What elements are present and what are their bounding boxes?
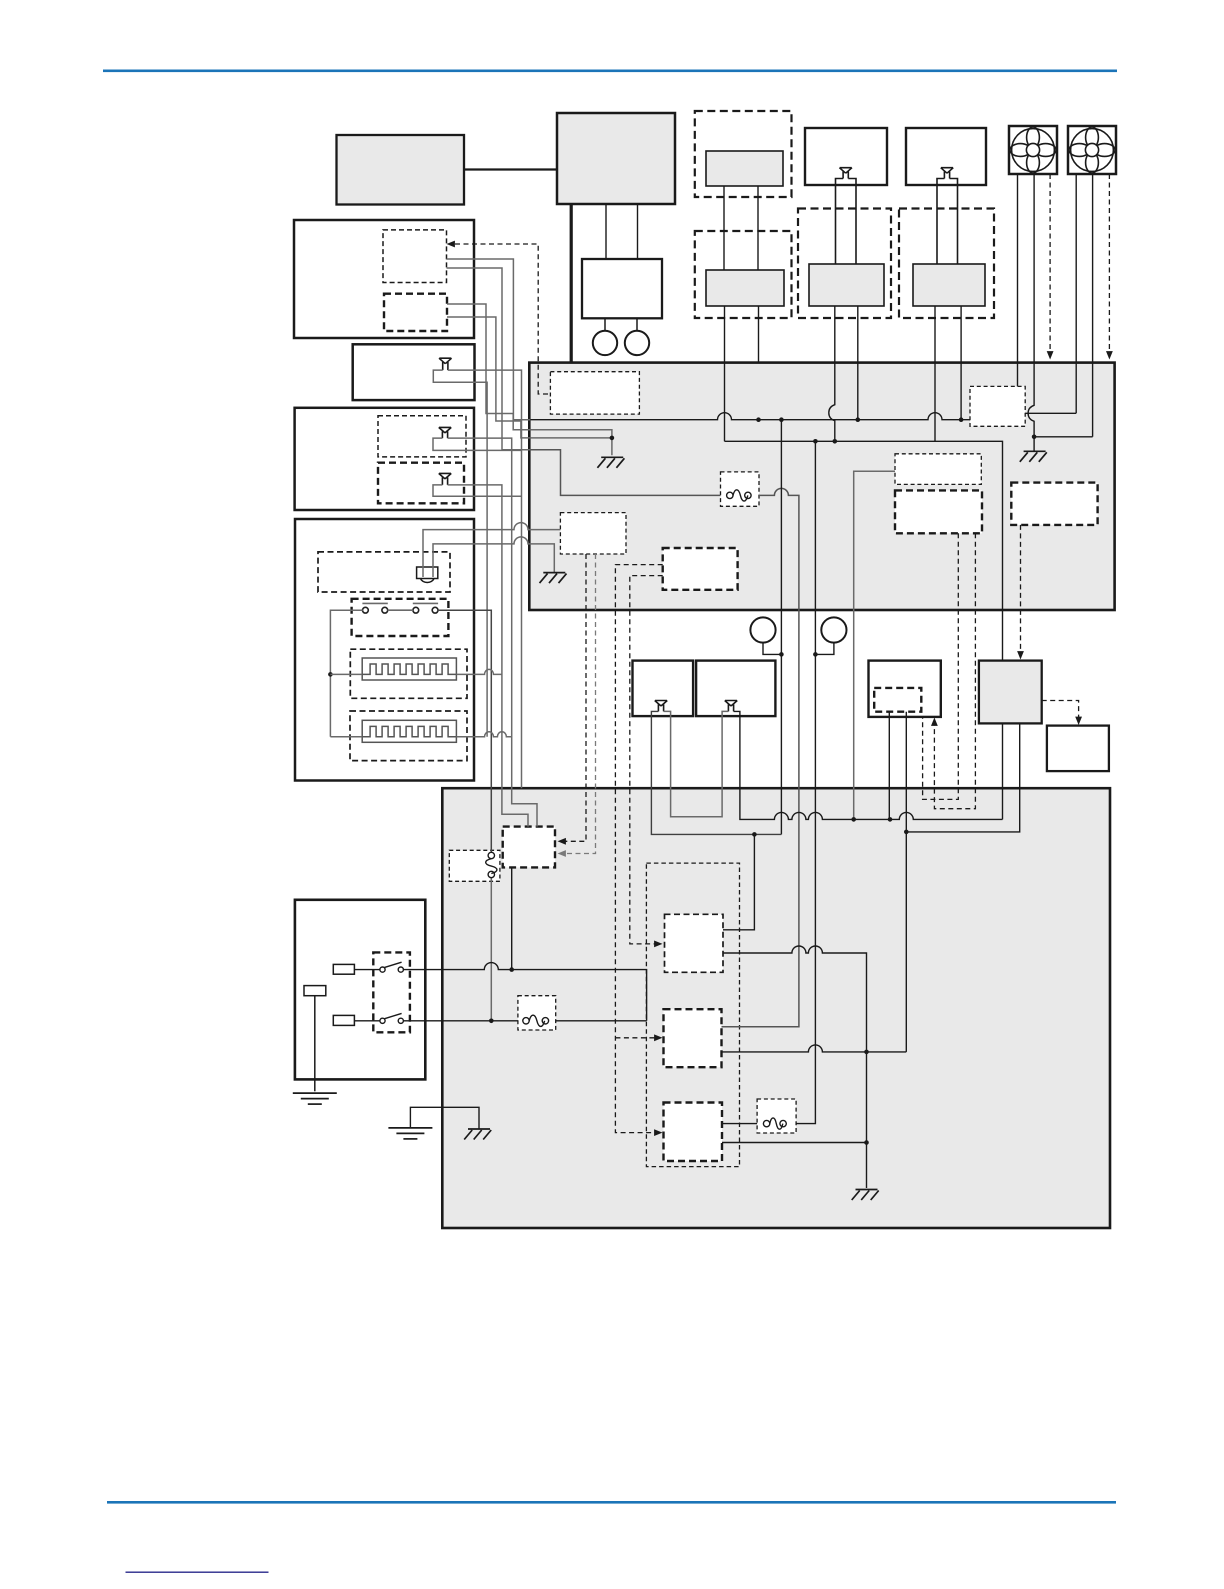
wire J pin2 — [433, 370, 487, 737]
lamp box J — [353, 344, 475, 400]
motor M2 stem — [636, 318, 638, 331]
junction CN2 — [813, 652, 818, 657]
link N to O (dashed with arrow) — [1042, 701, 1079, 720]
wire L4 right — [456, 732, 511, 737]
main control PWB (upper gray board) — [529, 363, 1114, 610]
thermostat symbol in K1 — [439, 427, 452, 438]
connector P3 on main PWB — [663, 548, 738, 590]
wire B trunk (thick) — [570, 204, 573, 363]
plug prong neutral — [333, 1015, 354, 1025]
frame ground link line — [410, 1107, 479, 1129]
harness F (dashed) — [798, 209, 891, 319]
thermostat symbol in J — [439, 358, 452, 370]
switch SW2 — [380, 1013, 404, 1023]
fuse symbol F1 — [727, 492, 733, 498]
connector P6 on main PWB — [895, 490, 982, 533]
fan FM1 — [1009, 126, 1057, 174]
wire Q1 bottom — [511, 867, 513, 969]
wire L3 left — [330, 673, 362, 675]
regulator R2 on power PWB — [664, 1009, 722, 1067]
connector M3a (thick dashed) — [874, 688, 921, 712]
controller box B (gray) — [557, 113, 675, 204]
interlock box N (gray) — [979, 661, 1042, 724]
sensor C connector (gray) — [706, 151, 783, 186]
harness D connector (gray) — [706, 270, 784, 306]
junction trace main / F2 — [856, 417, 861, 422]
wire H pin2 to main PWB — [960, 306, 962, 363]
fuse F1 box on main PWB — [721, 472, 760, 506]
power supply PWB (lower gray board) — [442, 788, 1110, 1228]
trace second to interlock N — [725, 441, 1003, 660]
FM1 sense line (dashed, arrow to main PWB) — [1049, 174, 1051, 352]
chassis ground (power PWB) — [852, 1190, 879, 1201]
sensor box M3 — [869, 661, 941, 717]
heater unit box K — [295, 408, 474, 510]
connector P4 on main PWB — [970, 386, 1025, 426]
thermostat K1 (dashed) — [378, 416, 466, 457]
thermostat box M1 — [633, 661, 694, 717]
wire L3 right — [456, 669, 502, 674]
link to R2 (dashed arrow) — [615, 1037, 657, 1039]
connector I1 (dashed) — [383, 230, 447, 283]
wire F pin2 — [857, 363, 859, 420]
plug prong earth — [304, 986, 326, 996]
riser wire CN2 to fuse F4 — [796, 441, 815, 1123]
regulator R1 on power PWB — [665, 914, 724, 972]
wire N pin1 down — [1002, 723, 1004, 819]
wire F pin1 (swerve hop) — [829, 363, 835, 442]
junction trace2 / F1wire — [833, 439, 838, 444]
sensor assembly C (dashed) — [695, 111, 792, 197]
fuse F4 box on power PWB — [757, 1099, 796, 1133]
regulator R3 on power PWB — [664, 1103, 723, 1162]
connector Q1 on power PWB — [503, 827, 555, 868]
FM2 sense line (dashed, arrow to main PWB) — [1108, 174, 1110, 352]
junction ground pair — [610, 436, 615, 441]
earth ground (inlet) — [293, 1093, 337, 1104]
thermostat symbol in E — [839, 168, 852, 179]
wire I1 pin2 — [447, 268, 531, 450]
wire B to motor driver 2 — [637, 204, 639, 259]
footer rule — [107, 1501, 1116, 1504]
chassis ground (fan) — [1020, 451, 1047, 462]
motor driver box — [582, 259, 662, 318]
wire B to motor driver 1 — [605, 204, 607, 259]
thermoswitch L2 (thick dashed) — [352, 599, 449, 636]
riser wire CN1 to trace main — [780, 420, 782, 835]
wire CN2 drop — [815, 643, 834, 655]
thermostat box M2 — [696, 661, 775, 717]
wire C to D pin1 — [723, 186, 725, 270]
link P2 to Q1 (dashed arrow) — [563, 554, 586, 841]
wire L2 right leg to fuse F2 — [438, 610, 492, 852]
junction CN1 — [779, 652, 784, 657]
wire E to F pin2 — [848, 179, 856, 265]
connector ring CN1 — [750, 617, 775, 642]
trace to fuse F1 and down to R2 — [530, 450, 720, 496]
wire F pin2 to main PWB — [857, 306, 859, 363]
junction fan ground — [1032, 435, 1037, 440]
control panel box A (gray) — [337, 135, 465, 205]
link P2 to Q1 second (gray dashed arrow) — [563, 554, 596, 854]
connector I2 (thick dashed) — [384, 294, 447, 331]
footer link underline — [126, 1572, 269, 1573]
wire R3 pin2 — [722, 1142, 867, 1144]
wire M1 left leg to bus — [651, 711, 781, 834]
wire H pin1 — [934, 363, 936, 442]
wire P5 down — [854, 471, 895, 819]
link P7 to N (dashed arrow) — [1020, 525, 1022, 654]
wire R1 pin2 to ground rail — [723, 946, 867, 1188]
wire prong N to SW2 — [354, 1020, 380, 1022]
relay box Q4 outline on power PWB — [646, 863, 739, 1167]
junction live / Q1 — [509, 967, 514, 972]
heater box E — [805, 128, 887, 185]
wire C to D pin2 — [757, 186, 759, 270]
chassis ground (main PWB left) — [597, 457, 624, 468]
wire A to B — [464, 168, 557, 170]
junction neutral / F2 — [489, 1019, 494, 1024]
trace main (hops D1 and H1 verticals) — [530, 413, 970, 420]
wire L1 pin2 to ground — [433, 537, 554, 577]
thermostat symbol in M2 — [725, 701, 738, 712]
wire J pin1 — [448, 370, 522, 788]
connector P7 on main PWB — [1011, 483, 1097, 525]
wire FM1 pin1 to P4 — [1017, 174, 1019, 386]
wire G to H pin2 — [950, 179, 958, 265]
wire H pin2 — [960, 363, 962, 420]
main switch box (thick dashed) — [373, 952, 410, 1032]
heater element symbol in L4 — [362, 720, 456, 742]
switch contacts in L2 — [362, 603, 438, 613]
wire K2 to Q1 — [448, 485, 528, 827]
wire I2 pin1 — [447, 304, 530, 430]
junction trace main / riser — [779, 417, 784, 422]
AC inlet box S — [295, 900, 425, 1080]
wire I2 pin2 — [447, 317, 530, 438]
thermostat symbol in G — [941, 168, 954, 179]
trace P4 to FM2 pin1 — [1025, 412, 1076, 414]
thermistor symbol in L1 — [417, 567, 438, 583]
document feeder box I — [294, 220, 474, 338]
wire D pin2 to main PWB — [758, 306, 760, 363]
wire I1 pin1 — [447, 259, 531, 420]
wire K1 return — [433, 438, 522, 450]
harness H (dashed) — [899, 209, 994, 319]
wire D pin1 to main PWB — [724, 306, 726, 363]
heater box G — [906, 128, 986, 185]
motor M2 — [625, 331, 649, 355]
ground feed pair — [530, 430, 612, 438]
motor M1 — [593, 331, 617, 355]
fuser unit box L — [295, 519, 474, 781]
thermostat symbol in M1 — [655, 701, 668, 712]
wire M3 pin2 to R2 — [905, 712, 907, 1052]
earth ground (frame) — [388, 1128, 432, 1139]
wire H pin1 to main PWB — [934, 306, 936, 363]
wire N pin2 — [906, 723, 1019, 832]
wire D pin1 vertical — [724, 363, 726, 442]
heater lamp L3 (dashed) — [350, 649, 467, 698]
header rule — [103, 70, 1117, 73]
option box O — [1047, 726, 1109, 772]
wire FM1 pin2 (hops trace, to ground) — [1028, 174, 1034, 451]
fuse F3 box on power PWB — [518, 996, 556, 1030]
wire K2 return — [433, 485, 522, 496]
wire M3 pin1 — [888, 712, 890, 820]
junction trace2 / riser815 — [813, 439, 818, 444]
junction L2/L3 — [328, 672, 333, 677]
harness H connector (gray) — [913, 264, 985, 306]
connector P1 on main PWB — [550, 372, 639, 414]
wire CN1 drop — [763, 643, 781, 655]
connector ring CN2 — [821, 617, 846, 642]
wire R3 pin1 to fuse F4 — [722, 1123, 757, 1125]
fuse symbol F3 — [523, 1018, 529, 1024]
junction M3 pin2 / N pin2 — [904, 830, 909, 835]
fuse symbol F2 (vertical) — [488, 852, 494, 858]
wire M1-M2 link — [664, 711, 729, 816]
junction trace main / H2 — [959, 417, 964, 422]
link P3 to R3 (dashed arrow) — [615, 565, 662, 1133]
heater element symbol in L3 — [362, 658, 456, 680]
fuse F2 box on power PWB — [449, 850, 500, 881]
wire FM2 pin2 — [1092, 174, 1094, 437]
fuse symbol F4 — [763, 1120, 769, 1126]
junction bus819 / M3 pin1 — [888, 817, 893, 822]
wire L1 pin1 to P2 — [423, 523, 560, 577]
chassis ground (P2 area) — [540, 573, 567, 584]
link P6 to M3 pin2 (dashed arrow) — [934, 533, 975, 808]
thermostat symbol in K2 — [439, 473, 452, 485]
wire prong L to SW1 — [354, 969, 380, 971]
chassis ground (frame) — [464, 1129, 491, 1140]
wire G to H pin1 — [937, 179, 944, 265]
wire I1 signal (dashed, arrow into I1) — [455, 244, 550, 394]
fan FM2 — [1068, 126, 1116, 174]
junction trace main / D2 — [756, 417, 761, 422]
wire fuse F2 out — [490, 878, 492, 1021]
plug prong live — [333, 964, 354, 974]
wire FM2 pin1 — [1075, 174, 1077, 413]
wire E to F pin1 — [836, 179, 844, 265]
wire L2 left leg — [330, 610, 362, 737]
motor M1 stem — [604, 318, 606, 331]
junction bus819 / P5 wire — [851, 817, 856, 822]
thermistor L1 (dashed) — [318, 552, 450, 592]
AC line neutral — [403, 1020, 646, 1022]
harness D (dashed) — [695, 231, 792, 318]
harness F connector (gray) — [809, 264, 884, 306]
thermostat K2 (thick dashed) — [378, 463, 464, 504]
wire R1 pin1 up to bus — [723, 834, 754, 929]
wire K1 to Q1 — [448, 438, 537, 826]
heater lamp L4 (dashed) — [350, 711, 467, 761]
connector P5 on main PWB — [895, 454, 981, 485]
wire L4 left — [330, 736, 362, 738]
link P6 to M3 pin1 (dashed) — [923, 533, 959, 799]
connector P2 on main PWB — [560, 513, 626, 554]
wire F pin1 to main PWB — [834, 306, 836, 363]
earth prong wire — [314, 996, 316, 1092]
junction ground rail / R2 pin2 — [864, 1050, 869, 1055]
link P3 to R1 (dashed arrow) — [630, 576, 663, 944]
switch SW1 — [380, 962, 404, 972]
AC line live — [403, 963, 646, 1021]
wire M2 right leg bus to N — [734, 711, 1003, 819]
junction ground rail / R3 pin2 — [864, 1140, 869, 1145]
trace fan ground bus — [1034, 436, 1093, 438]
junction bus / R1 — [752, 832, 757, 837]
